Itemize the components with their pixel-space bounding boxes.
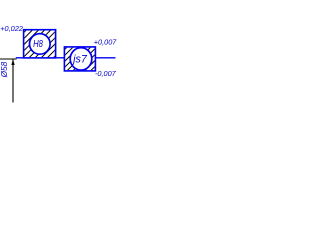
svg-text:+0,007: +0,007 [94, 37, 117, 46]
svg-text:H8: H8 [33, 38, 43, 49]
svg-text:-0,007: -0,007 [95, 69, 117, 78]
svg-text:Ø58: Ø58 [0, 61, 9, 78]
svg-text:js7: js7 [71, 53, 88, 65]
svg-text:+0,022: +0,022 [0, 24, 23, 33]
